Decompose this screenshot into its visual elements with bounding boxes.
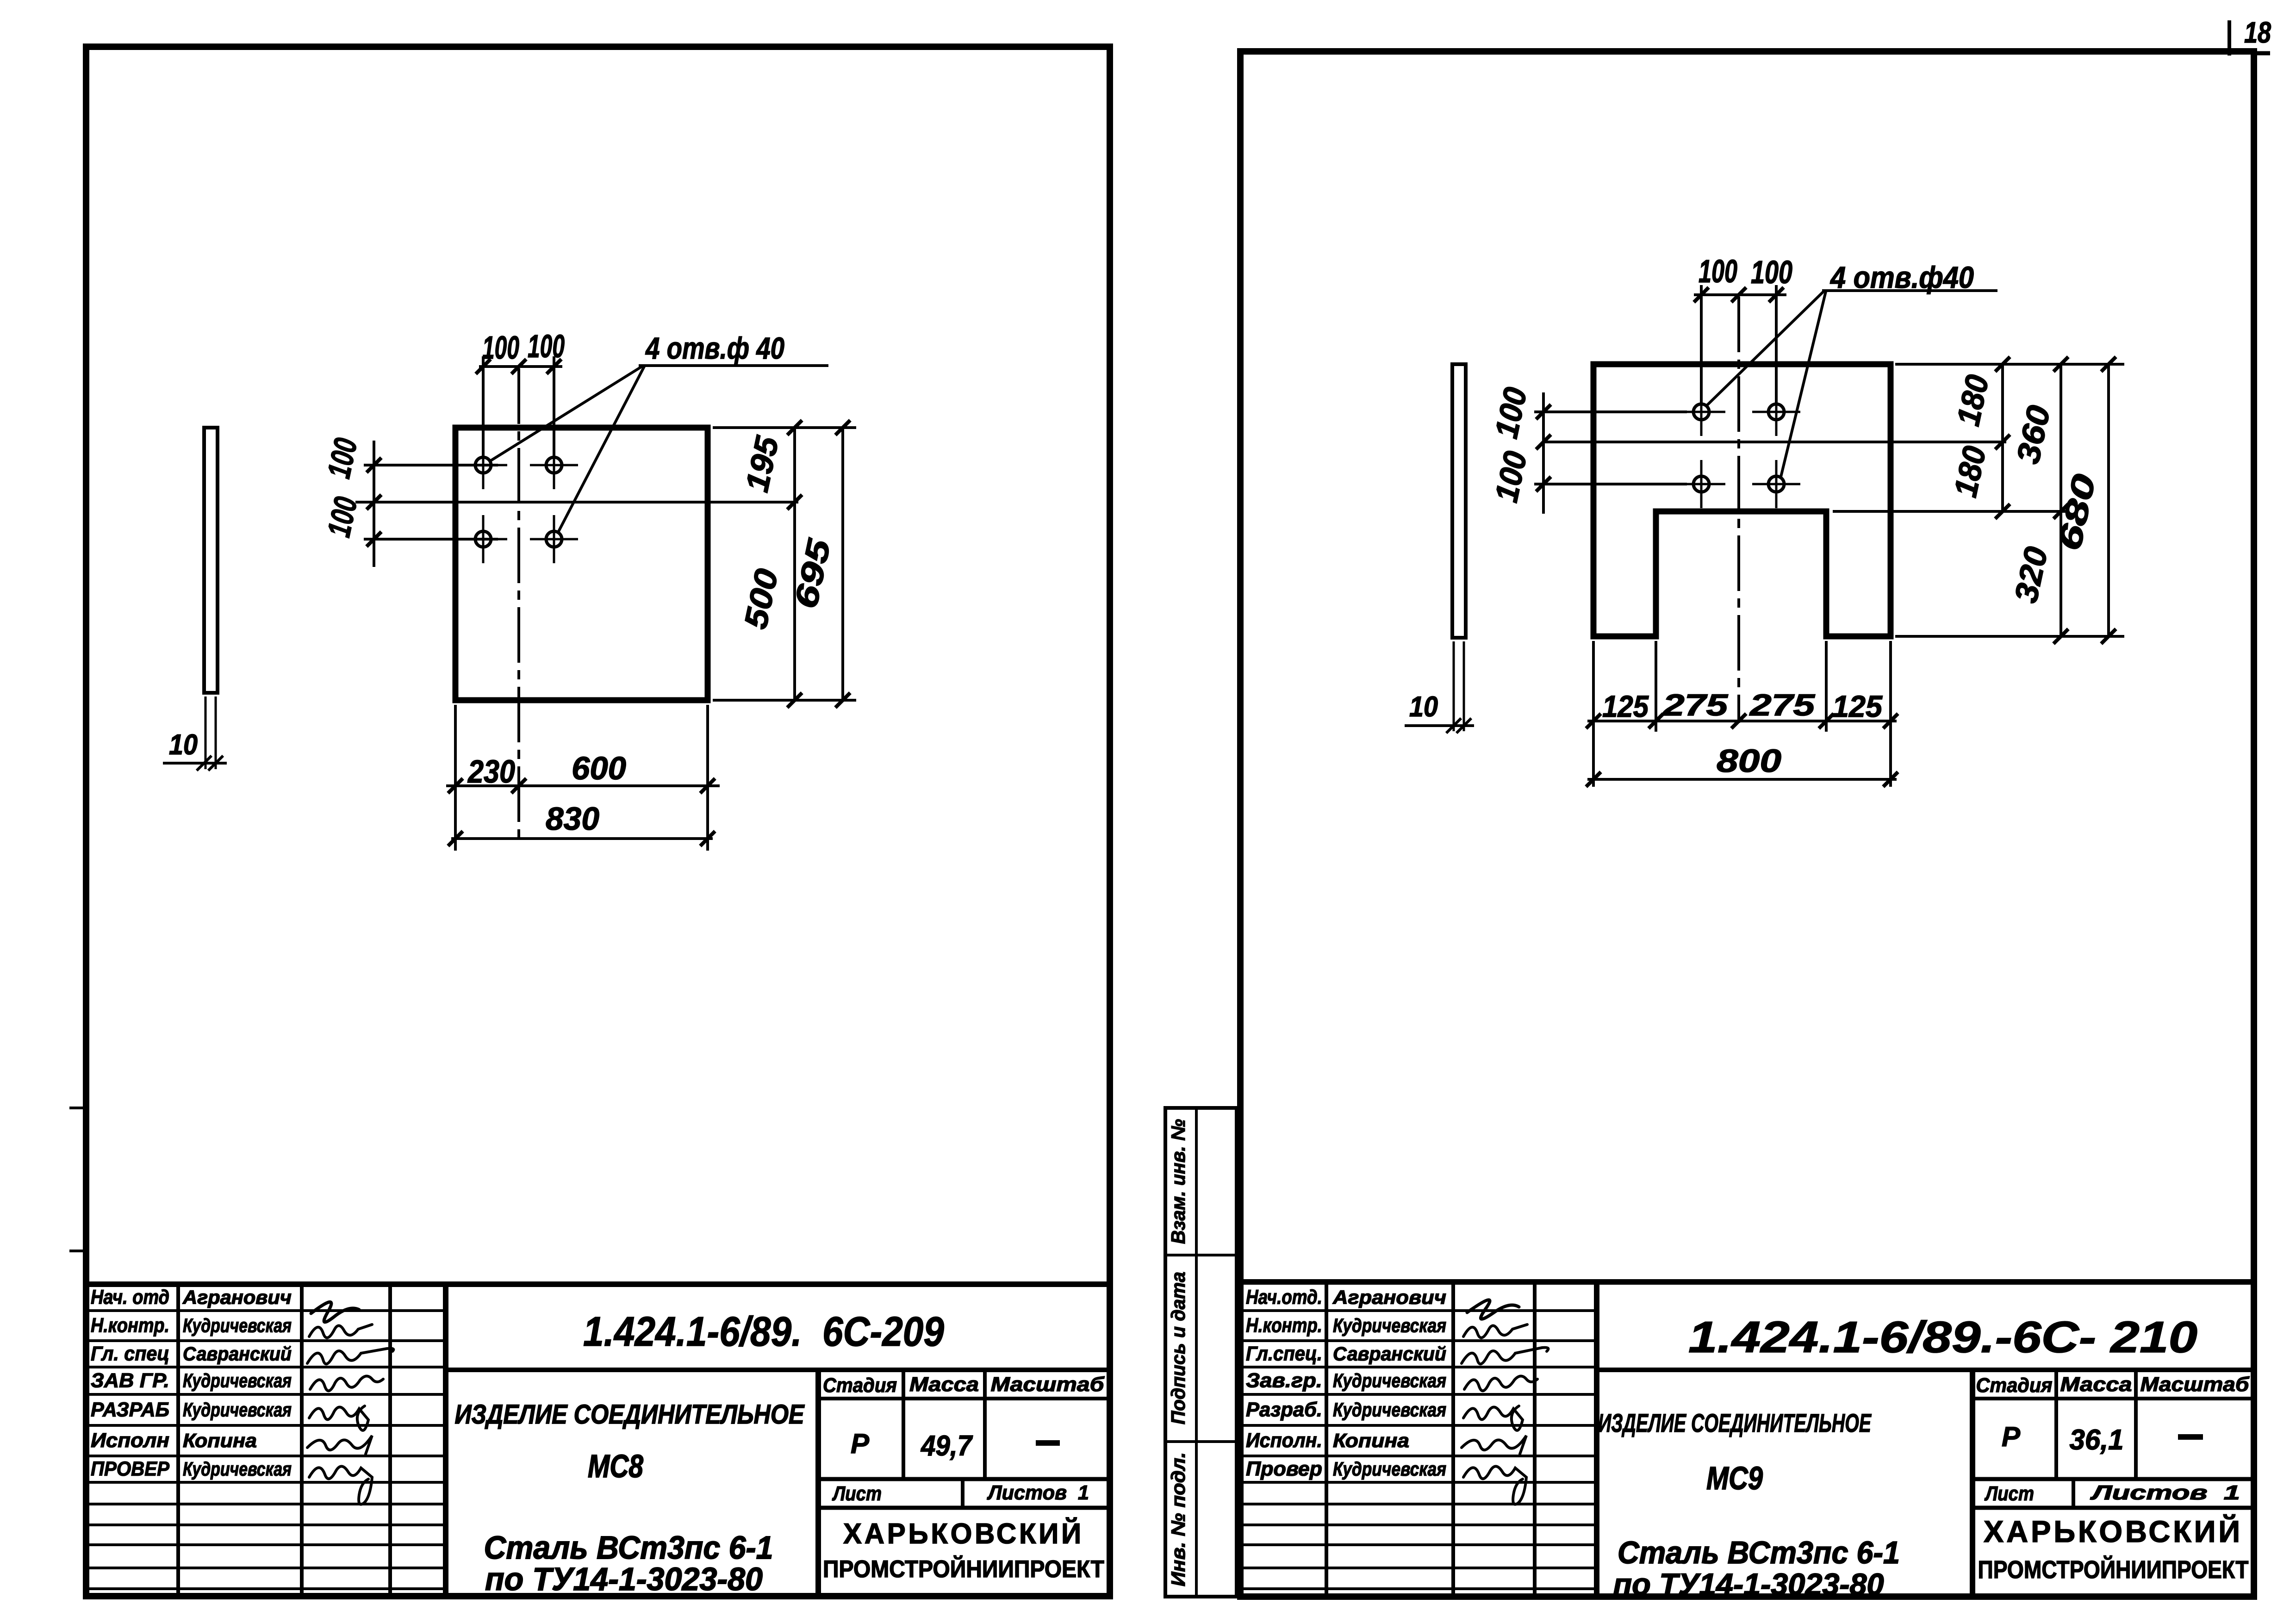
bottom dimension line 830 <box>451 837 713 840</box>
horizontal reference line <box>355 501 798 504</box>
svg-text:Н.контр.: Н.контр. <box>1246 1314 1322 1337</box>
leader to top-left hole (MC9) <box>1707 292 1823 405</box>
title block main divider (left sheet) <box>443 1284 448 1596</box>
title block top line (left sheet) <box>86 1281 1110 1287</box>
hole top-right (MC9) <box>1768 404 1784 420</box>
svg-text:ХАРЬКОВСКИЙ: ХАРЬКОВСКИЙ <box>843 1517 1084 1550</box>
right dimension line 695 <box>841 428 844 700</box>
title block row lines (left sheet) <box>86 1309 446 1312</box>
bottom dim extension lines (MC9) <box>1592 641 1595 787</box>
vertical centerline (MC9) <box>1737 297 1740 723</box>
svg-text:18: 18 <box>2244 16 2271 49</box>
stadia header underline (right) <box>1972 1397 2254 1400</box>
plate MC9 outline (plan view) <box>1593 364 1891 636</box>
svg-text:800: 800 <box>1717 743 1781 779</box>
svg-text:Копина: Копина <box>183 1430 257 1451</box>
svg-text:Инв. № подл.: Инв. № подл. <box>1167 1452 1189 1586</box>
svg-text:275: 275 <box>1748 688 1815 722</box>
stadia table (right): verticals <box>1970 1370 1975 1597</box>
right sheet frame <box>1240 51 2254 1597</box>
svg-text:230: 230 <box>467 753 515 790</box>
svg-text:ИЗДЕЛИЕ СОЕДИНИТЕЛЬНОЕ: ИЗДЕЛИЕ СОЕДИНИТЕЛЬНОЕ <box>1598 1408 1872 1437</box>
leader to lower-right hole (MC9) <box>1780 292 1826 479</box>
svg-text:ИЗДЕЛИЕ СОЕДИНИТЕЛЬНОЕ: ИЗДЕЛИЕ СОЕДИНИТЕЛЬНОЕ <box>455 1399 805 1430</box>
designation underline area divider (left) <box>446 1368 1110 1372</box>
inventory strip divider 2 <box>1165 1440 1237 1443</box>
hole bottom-right <box>546 531 562 547</box>
horizontal reference line (MC9) <box>1543 441 2006 443</box>
list row bottom line (right) <box>1972 1506 2254 1510</box>
svg-text:100: 100 <box>528 328 565 364</box>
svg-text:ПРОВЕР: ПРОВЕР <box>91 1458 170 1480</box>
frame top overshoot (right sheet) <box>2254 51 2270 56</box>
svg-text:Сталь ВСт3пс 6-1: Сталь ВСт3пс 6-1 <box>484 1530 773 1566</box>
right dimension line 195/500 <box>793 428 796 700</box>
svg-text:Масса: Масса <box>909 1373 979 1396</box>
svg-text:Кудричевская: Кудричевская <box>1333 1315 1446 1337</box>
signature scribbles (left sheet) <box>311 1302 359 1322</box>
svg-text:МС9: МС9 <box>1706 1460 1763 1496</box>
svg-text:Кудричевская: Кудричевская <box>183 1399 292 1421</box>
svg-text:Стадия: Стадия <box>1976 1374 2053 1397</box>
label underline (MC9) <box>1822 289 1997 292</box>
svg-text:Взам. инв. №: Взам. инв. № <box>1167 1119 1189 1244</box>
svg-text:100: 100 <box>482 330 519 366</box>
svg-text:Разраб.: Разраб. <box>1246 1399 1322 1421</box>
svg-text:4 отв.ф 40: 4 отв.ф 40 <box>645 331 784 365</box>
title block column lines (right sheet) <box>1325 1282 1328 1597</box>
svg-text:10: 10 <box>1409 691 1438 723</box>
page number tick <box>2228 20 2231 56</box>
right dim extension lines (MC9) <box>1895 363 2124 366</box>
svg-text:Гл. спец: Гл. спец <box>91 1343 169 1365</box>
list row divider (left) <box>961 1479 964 1508</box>
top dimension line 100+100 (MC9) <box>1694 293 1786 296</box>
svg-text:МС8: МС8 <box>588 1448 643 1484</box>
svg-text:Савранский: Савранский <box>1333 1343 1446 1365</box>
svg-text:275: 275 <box>1661 688 1728 722</box>
hole bottom-left <box>475 531 491 547</box>
svg-text:830: 830 <box>546 801 599 837</box>
bottom dim extension lines <box>454 705 457 851</box>
svg-text:Кудричевская: Кудричевская <box>183 1458 292 1480</box>
list row divider (right) <box>2072 1479 2075 1508</box>
svg-text:Исполн.: Исполн. <box>1246 1429 1322 1452</box>
inventory strip inner vertical <box>1195 1108 1198 1597</box>
svg-text:ПРОМСТРОЙНИИПРОЕКТ: ПРОМСТРОЙНИИПРОЕКТ <box>823 1555 1104 1583</box>
value dash (right) <box>2178 1434 2203 1440</box>
title block top line (right sheet) <box>1240 1279 2254 1285</box>
svg-text:Масштаб: Масштаб <box>2140 1373 2250 1396</box>
signature scribbles (right sheet) <box>1467 1300 1519 1319</box>
left sheet frame <box>86 47 1110 1596</box>
svg-text:РАЗРАБ: РАЗРАБ <box>91 1399 169 1421</box>
svg-text:10: 10 <box>169 729 198 761</box>
svg-text:Зав.гр.: Зав.гр. <box>1246 1369 1322 1392</box>
svg-text:Провер: Провер <box>1246 1458 1322 1480</box>
stadia bottom line (left) <box>818 1477 1110 1481</box>
svg-text:Лист: Лист <box>832 1482 882 1505</box>
svg-text:ПРОМСТРОЙНИИПРОЕКТ: ПРОМСТРОЙНИИПРОЕКТ <box>1978 1555 2249 1584</box>
title block main divider (right sheet) <box>1594 1282 1599 1597</box>
svg-text:125: 125 <box>1832 689 1883 723</box>
svg-text:Листов 1: Листов 1 <box>987 1481 1089 1504</box>
svg-text:Подпись и дата: Подпись и дата <box>1167 1272 1189 1424</box>
right dimension line 180/180 (MC9) <box>2001 364 2004 511</box>
stadia bottom line (right) <box>1972 1477 2254 1481</box>
leader line to bottom-right hole <box>558 366 645 533</box>
label underline / leader shelf <box>639 364 828 367</box>
svg-text:Агранович: Агранович <box>1332 1287 1446 1308</box>
top dimension extension lines <box>482 356 485 456</box>
svg-text:Кудричевская: Кудричевская <box>1333 1399 1446 1421</box>
designation divider (right) <box>1597 1368 2254 1372</box>
svg-text:Н.контр.: Н.контр. <box>91 1314 169 1337</box>
thickness dimension line 10 (MC9) <box>1405 724 1474 727</box>
svg-text:ЗАВ ГР.: ЗАВ ГР. <box>91 1369 169 1392</box>
svg-text:Кудричевская: Кудричевская <box>183 1315 292 1337</box>
svg-text:Стадия: Стадия <box>823 1374 897 1397</box>
svg-text:Исполн: Исполн <box>91 1429 169 1452</box>
hole top-right <box>546 457 562 473</box>
svg-text:1.424.1-6/89.-6С- 210: 1.424.1-6/89.-6С- 210 <box>1688 1312 2197 1362</box>
svg-text:Масштаб: Масштаб <box>991 1373 1105 1396</box>
svg-text:Лист: Лист <box>1984 1482 2034 1505</box>
svg-text:Сталь ВСт3пс 6-1: Сталь ВСт3пс 6-1 <box>1618 1535 1900 1570</box>
svg-text:Савранский: Савранский <box>183 1343 292 1365</box>
svg-text:по ТУ14-1-3023-80: по ТУ14-1-3023-80 <box>1613 1567 1884 1601</box>
svg-text:по ТУ14-1-3023-80: по ТУ14-1-3023-80 <box>485 1561 763 1597</box>
svg-text:1.424.1-6/89. 6С-209: 1.424.1-6/89. 6С-209 <box>583 1309 944 1355</box>
side view extension lines (MC9) <box>1453 641 1455 731</box>
plate MC8 side view (thickness) <box>204 428 218 693</box>
hole bottom-right (MC9) <box>1768 476 1784 492</box>
svg-text:Кудричевская: Кудричевская <box>1333 1370 1446 1392</box>
left dim extension lines <box>364 464 498 466</box>
hole top-left <box>475 457 491 473</box>
svg-text:Копина: Копина <box>1333 1430 1409 1451</box>
inventory strip divider 1 <box>1165 1254 1237 1256</box>
svg-text:100: 100 <box>1699 253 1737 289</box>
stadia header underline (left) <box>818 1397 1110 1400</box>
top dim extension lines (MC9) <box>1700 285 1703 403</box>
bottom dimension line 125/275/275/125 (MC9) <box>1587 720 1897 722</box>
top dimension line 100+100 <box>479 365 562 368</box>
right dimension line 360/320 (MC9) <box>2060 364 2062 636</box>
title block column lines (left sheet) <box>176 1284 180 1596</box>
plate MC9 side view (thickness) <box>1452 364 1466 638</box>
strip remnant ticks (left sheet) <box>69 1107 85 1109</box>
left dim extension lines (MC9) <box>1534 410 1687 413</box>
leader line to top-left hole <box>489 366 643 462</box>
svg-text:600: 600 <box>572 750 626 786</box>
hole top-left (MC9) <box>1693 404 1709 420</box>
stadia table (left): verticals <box>815 1370 821 1596</box>
side view extension lines <box>205 696 207 769</box>
svg-text:ХАРЬКОВСКИЙ: ХАРЬКОВСКИЙ <box>1984 1514 2243 1548</box>
left dimension line 100+100 <box>373 441 375 567</box>
svg-text:Листов 1: Листов 1 <box>2090 1481 2240 1504</box>
list row bottom line (left) <box>818 1506 1110 1510</box>
svg-text:Масса: Масса <box>2060 1373 2132 1396</box>
svg-text:100: 100 <box>1751 254 1792 290</box>
bottom dimension line 230/600 <box>446 784 720 787</box>
svg-text:Р: Р <box>2002 1421 2021 1452</box>
svg-text:Р: Р <box>851 1428 870 1459</box>
vertical centerline <box>517 368 520 840</box>
right dimension line 680 (MC9) <box>2107 364 2110 636</box>
thickness dimension line 10 <box>163 762 227 765</box>
svg-text:Нач.отд.: Нач.отд. <box>1246 1286 1322 1309</box>
right dim extension lines <box>713 426 856 429</box>
value dash (left) <box>1036 1440 1060 1446</box>
hole bottom-left (MC9) <box>1693 476 1709 492</box>
svg-text:125: 125 <box>1602 689 1649 723</box>
left dimension line 100+100 (MC9) <box>1542 392 1545 514</box>
bottom dimension line 800 (MC9) <box>1587 778 1897 781</box>
svg-text:Кудричевская: Кудричевская <box>183 1370 292 1392</box>
svg-text:Нач. отд: Нач. отд <box>91 1286 169 1309</box>
svg-text:49,7: 49,7 <box>920 1430 973 1462</box>
svg-text:Агранович: Агранович <box>182 1287 292 1308</box>
title block row lines (right sheet) <box>1240 1309 1597 1312</box>
svg-text:4 отв.ф40: 4 отв.ф40 <box>1829 260 1974 294</box>
plate MC8 outline (plan view) <box>455 428 708 700</box>
svg-text:Кудричевская: Кудричевская <box>1333 1458 1446 1480</box>
svg-text:Гл.спец.: Гл.спец. <box>1246 1343 1322 1365</box>
svg-text:36,1: 36,1 <box>2070 1424 2124 1456</box>
inventory strip outline <box>1165 1108 1237 1597</box>
